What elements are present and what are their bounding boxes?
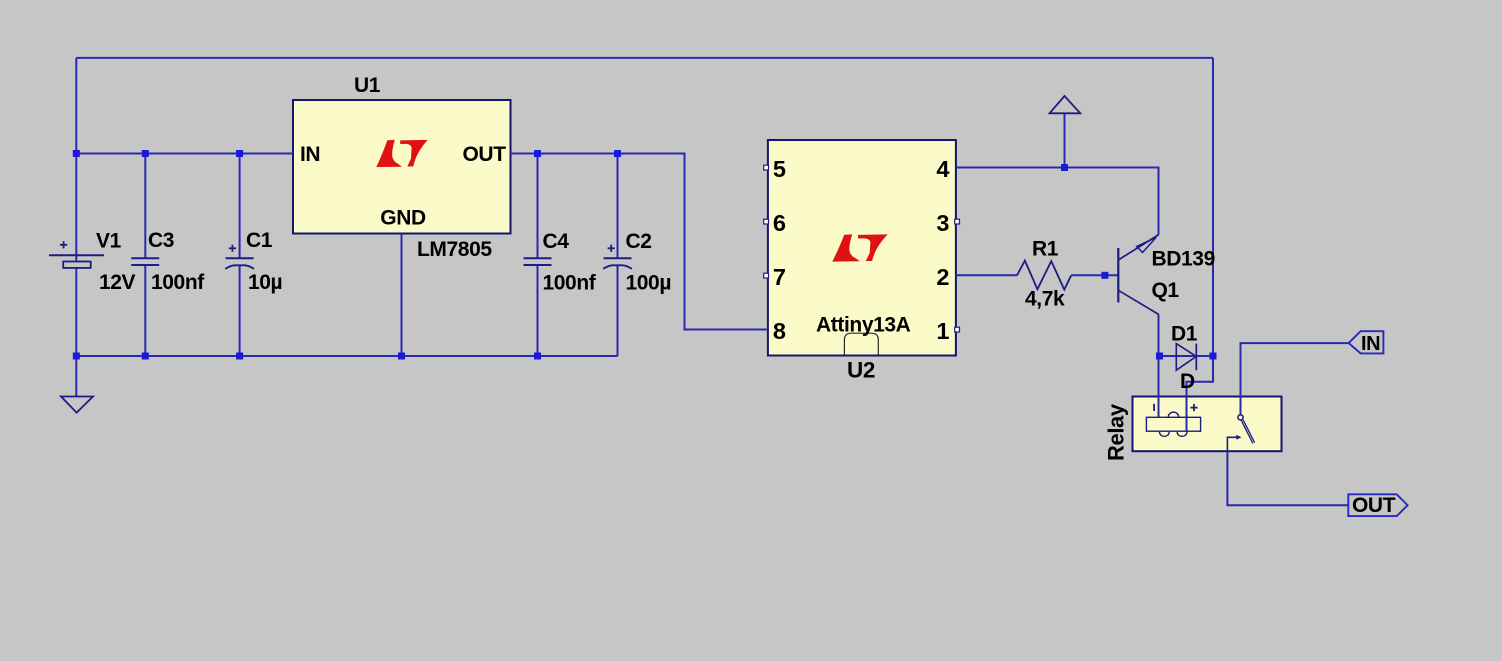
wire U1 GND pin [401, 234, 403, 357]
svg-text:1: 1 [936, 318, 949, 344]
svg-text:D1: D1 [1171, 323, 1198, 346]
svg-text:V1: V1 [96, 230, 122, 253]
wire Q1 emitter to relay coil minus [1158, 315, 1160, 418]
node junction C1 bottom [236, 353, 243, 360]
svg-text:4,7k: 4,7k [1025, 287, 1065, 310]
node junction C4 top [534, 150, 541, 157]
ground symbol [61, 397, 93, 413]
LT logo U2 [832, 234, 887, 261]
battery V1 [49, 241, 104, 268]
LT logo U1 [376, 140, 427, 167]
wire diode cathode to +12V [1196, 355, 1213, 357]
capacitor C4 [524, 258, 552, 265]
wire C1 branch [239, 154, 241, 259]
pin square U2 pin5 [764, 165, 769, 170]
svg-text:3: 3 [936, 210, 949, 236]
pin square U2 pin6 [764, 219, 769, 224]
svg-text:10µ: 10µ [248, 271, 282, 294]
capacitor C1 (polarized) [225, 245, 254, 269]
op-amp U1 body (LM7805 regulator box) [293, 100, 511, 234]
node junction diode cathode [1210, 353, 1217, 360]
pin square U2 pin7 [764, 273, 769, 278]
op-amp U2 body (Attiny13A box) [768, 140, 956, 356]
port flag IN [1349, 331, 1384, 353]
port flag OUT [1348, 494, 1407, 516]
wire C2 branch [617, 154, 619, 259]
U2 notch marker [844, 333, 878, 355]
node junction Q1 base [1101, 272, 1108, 279]
wire top rail [76, 57, 1213, 59]
wire diode anode stub [1160, 355, 1214, 357]
node junction VCC flag [1061, 164, 1068, 171]
diode D1 [1176, 344, 1196, 371]
node junction diode anode [1156, 353, 1163, 360]
svg-text:LM7805: LM7805 [417, 238, 492, 261]
wire R1 to Q1 base [1071, 274, 1118, 276]
wire left vertical [75, 58, 77, 397]
svg-text:BD139: BD139 [1152, 247, 1215, 270]
node junction C3 top [142, 150, 149, 157]
svg-text:D: D [1180, 370, 1195, 393]
svg-text:U2: U2 [847, 358, 875, 383]
svg-text:IN: IN [300, 143, 320, 166]
node junction C1 top [236, 150, 243, 157]
transistor Q1 (BD139) [1118, 235, 1159, 315]
wire C4 branch [537, 154, 539, 259]
relay body box [1133, 397, 1282, 452]
wire VCC flag stub [1064, 113, 1066, 167]
relay coil [1146, 404, 1200, 437]
svg-text:7: 7 [773, 264, 786, 290]
svg-text:IN: IN [1361, 333, 1380, 355]
svg-text:Relay: Relay [1104, 403, 1129, 461]
pin square U2 pin3 [955, 219, 960, 224]
wire U2 pin 2 to R1 [956, 274, 1017, 276]
svg-text:C3: C3 [148, 229, 174, 252]
wire relay switch to IN port [1241, 343, 1349, 415]
node junction V1 top [73, 150, 80, 157]
capacitor C3 [131, 258, 159, 265]
svg-text:OUT: OUT [463, 143, 507, 166]
svg-text:100µ: 100µ [626, 271, 672, 294]
svg-text:8: 8 [773, 318, 786, 344]
svg-text:12V: 12V [99, 271, 136, 294]
node junction C4 bottom [534, 353, 541, 360]
node junction C2 top [614, 150, 621, 157]
svg-text:GND: GND [380, 206, 426, 229]
wire +12V drop to relay coil plus [1187, 58, 1214, 431]
svg-text:C2: C2 [626, 230, 652, 253]
svg-text:2: 2 [936, 264, 949, 290]
wire input rail [76, 153, 293, 155]
svg-text:U1: U1 [354, 74, 381, 97]
wire U2 pin 4 to Q1 collector [956, 168, 1159, 235]
relay switch [1227, 415, 1254, 451]
wire ground rail [76, 355, 617, 357]
power flag VCC triangle [1050, 96, 1081, 113]
svg-text:100nf: 100nf [543, 271, 597, 294]
svg-text:C4: C4 [543, 230, 570, 253]
node junction U1 GND [398, 353, 405, 360]
svg-text:100nf: 100nf [151, 271, 205, 294]
svg-text:6: 6 [773, 210, 786, 236]
svg-text:Q1: Q1 [1152, 279, 1180, 302]
svg-text:OUT: OUT [1352, 494, 1396, 517]
svg-text:4: 4 [936, 156, 949, 182]
resistor R1 [1017, 261, 1071, 290]
svg-text:Attiny13A: Attiny13A [816, 313, 911, 336]
svg-text:R1: R1 [1032, 237, 1059, 260]
node junction C3 bottom [142, 353, 149, 360]
pin square U2 pin1 [955, 327, 960, 332]
wire U1 OUT rail [510, 154, 768, 330]
wire C3 branch [144, 154, 146, 259]
svg-text:5: 5 [773, 156, 786, 182]
node junction V1 bottom [73, 353, 80, 360]
wire relay common to OUT port [1227, 451, 1348, 505]
svg-text:C1: C1 [246, 229, 273, 252]
capacitor C2 (polarized) [603, 245, 632, 269]
